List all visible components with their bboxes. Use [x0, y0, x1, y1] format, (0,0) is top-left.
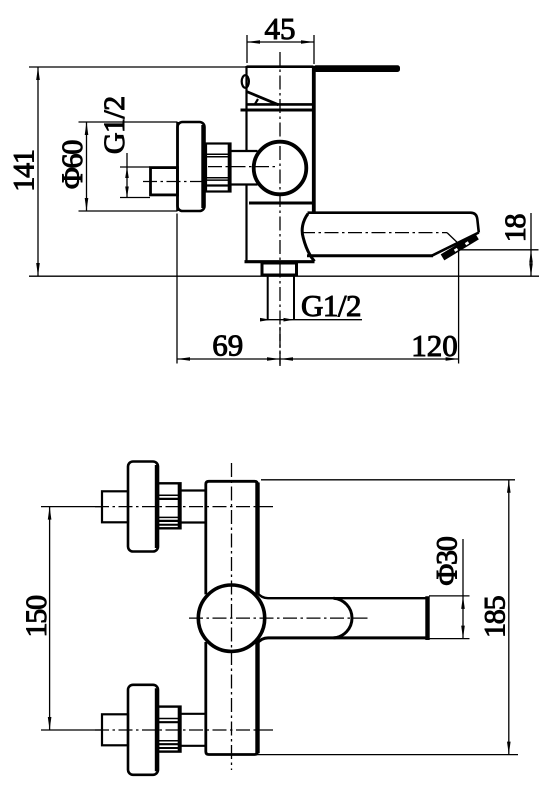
wall supply pipe (left, G1/2) [151, 168, 178, 195]
dimension 69/120: extension lines [177, 214, 459, 367]
svg-text:150: 150 [20, 596, 53, 638]
spout centerline [301, 232, 447, 234]
ball joint axis centerline [208, 166, 277, 168]
dimension 150: extension lines [41, 507, 102, 730]
handle lever (front) [257, 593, 428, 644]
handle end cap ellipse [242, 75, 249, 88]
dimension 45: dimension line [247, 41, 314, 43]
shared bottom extension line (141 and 18) [29, 275, 539, 277]
bottom wall connection: flange [128, 685, 158, 775]
front body vertical centerline [231, 463, 233, 770]
svg-text:185: 185 [479, 596, 512, 638]
top wall connection: pipe [102, 491, 128, 522]
svg-text:Φ60: Φ60 [56, 141, 89, 190]
bottom wall connection: nut [158, 707, 181, 752]
bottom connection axis centerline [95, 729, 273, 731]
ball joint circle [254, 142, 307, 195]
handle base diagonal [247, 92, 279, 105]
connector tube [231, 151, 258, 185]
top wall connection: nut [158, 483, 181, 528]
dimension 45: arrows [247, 40, 314, 44]
dimension 18: extension + dim lines [459, 213, 539, 276]
handle ball (front) [198, 585, 264, 651]
svg-text:45: 45 [265, 11, 296, 46]
dimension 45: extension lines [247, 35, 314, 64]
dimension G1/2 bottom: line under text [265, 319, 362, 321]
dimension G1/2 left: extension+dim lines [120, 153, 150, 198]
svg-text:120: 120 [411, 328, 458, 363]
svg-text:141: 141 [8, 150, 41, 192]
dimension 185: extension lines [248, 480, 518, 755]
svg-text:G1/2: G1/2 [98, 96, 131, 154]
cartridge cap bottom line [247, 103, 314, 106]
top wall connection: flange [128, 462, 158, 552]
body section line [249, 202, 313, 205]
handle axis centerline [189, 617, 370, 619]
bottom wall connection: pipe [102, 714, 128, 745]
svg-text:G1/2: G1/2 [301, 288, 361, 323]
lever handle bar [314, 65, 401, 72]
dimension 69/120: arrows [177, 357, 459, 361]
hex nut [206, 144, 231, 192]
dimension 141: dimension line with arrows [29, 67, 246, 276]
dimension 69/120: dimension line [177, 358, 459, 360]
supply pipe axis centerline [143, 181, 206, 183]
svg-text:69: 69 [212, 328, 243, 363]
tail collar [262, 263, 297, 275]
tail pipe G1/2 [268, 275, 294, 319]
svg-text:Φ30: Φ30 [431, 537, 464, 586]
top connection axis centerline [95, 506, 273, 508]
dimension phi60: extension lines [79, 122, 178, 211]
handle base small tick [255, 99, 259, 105]
bottom wall connection: tube [181, 714, 206, 746]
dimension phi60: arrows [85, 122, 89, 211]
aerator strips [443, 236, 478, 257]
body vertical centerline [279, 52, 281, 366]
wall flange escutcheon [178, 122, 205, 211]
svg-text:18: 18 [499, 215, 532, 243]
top wall connection: tube [181, 491, 206, 523]
dimension phi30: extension lines [429, 539, 470, 639]
spout outline [302, 213, 479, 262]
body outline [245, 66, 315, 262]
front body outline [206, 481, 258, 754]
spout centerline leader to outlet [447, 233, 462, 247]
